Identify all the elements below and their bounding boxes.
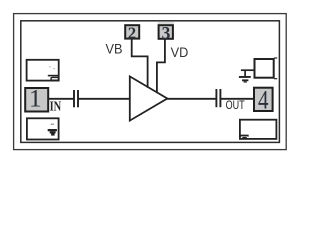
pin 4 <box>254 86 273 115</box>
output coupling capacitor <box>216 89 220 107</box>
wire pad box to ground <box>241 69 254 71</box>
svg-text:4: 4 <box>258 86 269 115</box>
exposed pad box top-right <box>255 58 278 79</box>
amplifier triangle U1 <box>130 76 168 120</box>
svg-text:VD: VD <box>171 45 189 60</box>
package outline inner <box>21 21 280 143</box>
wire pin1 to input capacitor <box>49 98 74 100</box>
decoupling box bottom-left <box>27 118 59 139</box>
matching box top-left <box>27 60 59 81</box>
wire input capacitor to amplifier <box>78 98 130 100</box>
wire pin 2 (VB) to amplifier <box>132 39 148 88</box>
svg-text:IN: IN <box>50 100 62 115</box>
svg-text:OUT: OUT <box>226 98 245 112</box>
svg-text:3: 3 <box>162 23 171 43</box>
ground symbol top-right <box>239 70 251 82</box>
decoupling box bottom-right <box>240 120 277 139</box>
wire amplifier to output capacitor <box>166 98 216 100</box>
ground-pad icon in top-left box <box>48 66 59 80</box>
pin 3 <box>159 23 173 43</box>
ground icon in bottom-left box <box>48 124 57 136</box>
input coupling capacitor <box>74 90 78 107</box>
svg-text:1: 1 <box>29 83 42 112</box>
pin 2 <box>125 24 139 43</box>
scan halo above pin 3 <box>158 22 174 24</box>
svg-text:VB: VB <box>106 42 123 57</box>
wire pin 3 (VD) to amplifier <box>157 39 165 93</box>
svg-text:2: 2 <box>128 24 136 43</box>
pin 1 <box>25 83 48 112</box>
package outline outer <box>14 14 287 150</box>
wire output capacitor to pin 4 <box>221 98 254 100</box>
ground icon in bottom-right box <box>241 135 248 138</box>
